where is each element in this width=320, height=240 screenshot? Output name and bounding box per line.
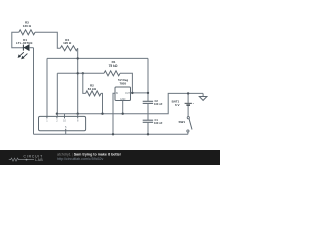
ground (199, 93, 207, 100)
svg-text:atchdry1 | Sam trying to make: atchdry1 | Sam trying to make it better (57, 152, 122, 156)
wire LED down left side (33, 48, 35, 135)
node bottom rail x C1 (147, 133, 149, 135)
node wireA left end (56, 113, 58, 115)
switch SW1 (187, 117, 192, 135)
wire rail2 to R1 (57, 72, 104, 74)
wire R3 right to R4 (35, 32, 60, 48)
wire OUT rail (131, 92, 149, 94)
IC big box (39, 116, 86, 130)
svg-text:84 kΩ: 84 kΩ (88, 87, 97, 91)
svg-text:IN: IN (116, 92, 119, 95)
wire rail1 right descent to C2 (147, 58, 149, 101)
svg-text:CIRCUIT: CIRCUIT (24, 154, 44, 158)
wire R3 left to LED (12, 32, 24, 47)
wire R2 right descent (101, 93, 103, 113)
node rail2 x long vertical (77, 72, 79, 74)
wire IC pin stub c (56, 114, 58, 117)
node wireA x long vertical (77, 113, 79, 115)
logo resistor squiggle (9, 158, 34, 161)
LED arrow 2 (21, 54, 27, 60)
pin tick 2 (56, 116, 58, 118)
wire C2 to C1 (147, 103, 149, 120)
svg-text:120 Ω: 120 Ω (63, 41, 72, 45)
wire bottom rail (34, 133, 188, 135)
wire IN lead and descent (113, 93, 115, 134)
svg-text:6 V: 6 V (175, 103, 180, 107)
wire R1 right descent to OUT rail (120, 73, 132, 93)
LED D1 (23, 45, 33, 51)
pin tick 8 (77, 116, 79, 118)
svg-text:http://circuitlab.com/c/59c52v: http://circuitlab.com/c/59c52v (57, 157, 104, 161)
wire A mid horizontal (57, 93, 203, 113)
logo node dot (26, 159, 28, 161)
node battery top (187, 92, 189, 94)
node OUT x C2 vertical (147, 92, 149, 94)
wire rail2 left descent (56, 73, 58, 113)
wire rail1 (47, 57, 148, 59)
node wireA x GND lead (122, 113, 124, 115)
wire IC bottom stub (65, 131, 67, 135)
wire R2 left lead from rail2 (83, 73, 86, 93)
op-amp U1: 5V regulator 7805 box (115, 87, 131, 101)
svg-text:LTL-307EE: LTL-307EE (16, 41, 33, 45)
node rail1 x R4 (77, 57, 79, 59)
svg-text:R1: R1 (112, 60, 116, 64)
svg-text:120 Ω: 120 Ω (23, 24, 32, 28)
wire R4 long vertical (77, 48, 79, 114)
resistor R2 (86, 91, 101, 96)
node rail2 R2 tap (82, 72, 84, 74)
wire GND descent (122, 101, 124, 114)
LED arrow 1 (18, 52, 24, 58)
capacitor C1 (143, 120, 153, 122)
node wireA x R2 (101, 113, 103, 115)
node OUT x R1 (131, 92, 133, 94)
footer bar (0, 150, 220, 165)
pin tick 3 (64, 116, 66, 118)
battery BAT1 (185, 93, 192, 116)
svg-text:SW1: SW1 (178, 120, 185, 124)
svg-text:LAB: LAB (35, 158, 43, 162)
capacitor C2 (143, 101, 153, 103)
svg-text:75 kΩ: 75 kΩ (109, 64, 118, 68)
pin tick 1 (46, 116, 48, 118)
resistor R1 (104, 71, 120, 76)
wire IC pin stub (64, 114, 66, 117)
wire IC pin stub b (77, 114, 79, 117)
resistor R3 (19, 30, 35, 35)
node bottom rail x IN descent (112, 133, 114, 135)
wire rail1 left descent to IC pin (46, 58, 48, 116)
svg-text:OUT: OUT (125, 92, 131, 95)
pin tick 4 (65, 129, 67, 131)
wire C1 bottom stub (147, 122, 149, 134)
svg-text:7805: 7805 (119, 82, 126, 86)
resistor R4 (60, 46, 77, 51)
